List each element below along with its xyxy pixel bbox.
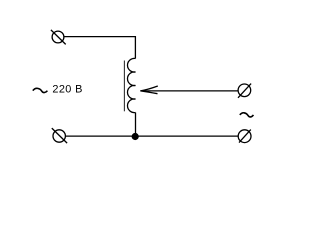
wire top: XT1 to coil top corner [64, 37, 135, 59]
autotransformer winding T1 (4 arcs) [127, 58, 135, 112]
svg-text:220 В: 220 В [52, 83, 82, 95]
label ~ (AC sign) for 220 V input [33, 88, 48, 92]
terminal XT2 bottom-left input [52, 128, 67, 143]
wire bottom: XT2 to XT4 [65, 135, 238, 137]
wiper arrow of T1 [140, 86, 237, 94]
terminal XT1 top-left input [51, 30, 66, 45]
terminal XT3 top-right output [238, 84, 251, 98]
label ~ (AC sign) at output [240, 113, 254, 117]
terminal XT4 bottom-right output [238, 130, 251, 143]
junction node dot [132, 133, 139, 140]
wire: coil bottom to junction [135, 113, 137, 137]
core bar of T1 [123, 61, 125, 112]
